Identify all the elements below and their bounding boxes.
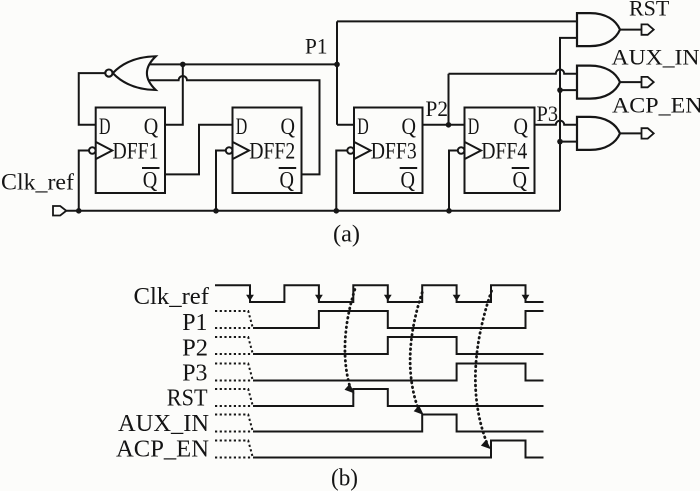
D flip-flop DFF4 bbox=[458, 108, 535, 194]
arrowhead of arc Clk to AUX_IN bbox=[414, 405, 424, 415]
node clock rail DFF4 bbox=[446, 208, 452, 214]
falling-edge arrow 5 on Clk_ref bbox=[522, 295, 530, 301]
svg-text:P1: P1 bbox=[182, 310, 207, 336]
falling-edge arrow 2 on Clk_ref bbox=[315, 295, 323, 301]
wire NOR input 2 from DFF2 Qbar (hop over vertical at x=182.8) bbox=[149, 76, 320, 174]
falling-edge arrow 3 on Clk_ref bbox=[384, 295, 392, 301]
wire DFF1 Qbar to DFF2 D bbox=[165, 125, 233, 175]
wire clock riser DFF1 bbox=[79, 151, 89, 211]
waveform RST dotted leader bbox=[215, 389, 253, 406]
output port arrow AUX_IN bbox=[642, 77, 654, 87]
AND gate U2 (RST) bbox=[577, 13, 620, 46]
dotted causality arc Clk to ACP_EN bbox=[475, 291, 491, 442]
AND gate U3 (AUX_IN) bbox=[577, 66, 620, 99]
waveform ACP_EN dotted low leader bbox=[215, 457, 252, 459]
svg-text:D: D bbox=[357, 114, 369, 140]
svg-text:Q: Q bbox=[281, 114, 296, 140]
wire NOR output to DFF1 D input bbox=[79, 73, 106, 125]
svg-text:Q: Q bbox=[513, 167, 528, 193]
wire clock riser DFF3 bbox=[336, 151, 347, 211]
node junction dots bbox=[76, 62, 563, 214]
svg-text:DFF2: DFF2 bbox=[249, 138, 295, 164]
D flip-flop DFF2 bbox=[226, 108, 302, 194]
svg-text:DFF3: DFF3 bbox=[371, 138, 417, 164]
waveform Clk_ref bbox=[215, 285, 544, 302]
node clock to AUX_IN gate bbox=[557, 87, 563, 93]
arrowhead of arc Clk to RST bbox=[345, 384, 355, 394]
AND gate U4 (ACP_EN) bbox=[577, 117, 620, 150]
waveform P3 dotted leader bbox=[215, 364, 253, 381]
wire P3 from DFF4 Q to ACP_EN gate top input (hop over clock vertical) bbox=[535, 121, 579, 125]
svg-text:P2: P2 bbox=[426, 96, 449, 121]
NOR gate U1 (mirrored, output on left) bbox=[105, 56, 156, 90]
svg-text:(b): (b) bbox=[331, 466, 358, 491]
wire clock stub to AUX_IN gate bottom input bbox=[560, 89, 578, 91]
svg-text:P3: P3 bbox=[537, 101, 559, 126]
node Clk_ref at input bbox=[76, 208, 82, 214]
wire AUX_IN gate output bbox=[620, 81, 642, 83]
wire DFF3 Q to DFF4 D (node P2) bbox=[423, 124, 465, 126]
waveform P1 solid bbox=[253, 311, 544, 328]
svg-text:ACP_EN: ACP_EN bbox=[612, 93, 700, 118]
wire clock stub to ACP_EN gate bottom input bbox=[560, 141, 578, 143]
waveform P2 dotted leader bbox=[215, 337, 253, 354]
output port arrow RST bbox=[642, 24, 654, 34]
waveform P3 dotted low leader bbox=[215, 380, 252, 382]
waveform AUX_IN dotted low leader bbox=[215, 431, 252, 433]
waveform P2 dotted low leader bbox=[215, 353, 252, 355]
waveform ACP_EN solid bbox=[253, 441, 544, 458]
svg-text:Clk_ref: Clk_ref bbox=[1, 170, 74, 195]
wire P1 vertical node P1 to DFF3 D bbox=[337, 21, 354, 124]
svg-text:D: D bbox=[236, 114, 248, 140]
wire DFF1 Q output up to P1 line bbox=[165, 64, 183, 124]
svg-text:Q: Q bbox=[144, 114, 159, 140]
D flip-flop DFF1 bbox=[89, 108, 165, 194]
wire clock riser DFF4 bbox=[449, 151, 458, 211]
svg-text:P3: P3 bbox=[182, 361, 207, 387]
wire P1 net horizontal (NOR input 1 to node P1) bbox=[149, 63, 337, 65]
falling-edge arrow 4 on Clk_ref bbox=[453, 295, 461, 301]
wire clock vertical riser to RST gate bottom input bbox=[560, 38, 578, 211]
svg-text:D: D bbox=[99, 114, 111, 140]
D flip-flop DFF3 bbox=[347, 108, 422, 194]
node DFF1 Q on P1 line bbox=[180, 62, 186, 68]
waveform AUX_IN solid bbox=[253, 415, 544, 432]
svg-text:P2: P2 bbox=[182, 336, 208, 362]
node P2 bbox=[446, 122, 452, 128]
svg-text:Q: Q bbox=[143, 167, 158, 193]
waveform ACP_EN dotted leader bbox=[215, 441, 253, 458]
waveform RST solid bbox=[253, 389, 544, 406]
node clock rail DFF2 bbox=[213, 208, 219, 214]
schematic net labels bbox=[1, 0, 700, 195]
wire P1 to RST gate top input bbox=[337, 20, 578, 22]
wire ACP_EN gate output bbox=[620, 132, 642, 134]
timing diagram waveforms bbox=[215, 285, 544, 457]
svg-text:AUX_IN: AUX_IN bbox=[118, 411, 209, 437]
svg-text:RST: RST bbox=[167, 386, 208, 412]
node clock rail DFF3 bbox=[334, 208, 340, 214]
svg-text:Q: Q bbox=[280, 167, 295, 193]
wire Clk_ref rail bbox=[66, 210, 560, 212]
dotted causality arc Clk to RST bbox=[345, 290, 355, 389]
waveform AUX_IN dotted leader bbox=[215, 415, 253, 432]
svg-text:D: D bbox=[468, 114, 480, 140]
svg-text:RST: RST bbox=[629, 0, 670, 21]
svg-text:DFF1: DFF1 bbox=[113, 138, 159, 164]
svg-text:AUX_IN: AUX_IN bbox=[612, 45, 700, 70]
svg-text:Q: Q bbox=[514, 114, 529, 140]
waveform P2 solid bbox=[253, 337, 544, 354]
wire clock riser DFF2 bbox=[216, 151, 226, 211]
svg-text:Clk_ref: Clk_ref bbox=[134, 284, 210, 310]
svg-text:Q: Q bbox=[401, 167, 416, 193]
svg-text:(a): (a) bbox=[333, 222, 360, 248]
svg-text:Q: Q bbox=[402, 114, 417, 140]
waveform P3 solid bbox=[253, 364, 544, 381]
timing diagram row labels bbox=[116, 284, 209, 462]
input port symbol Clk_ref bbox=[53, 206, 66, 216]
svg-text:ACP_EN: ACP_EN bbox=[116, 436, 209, 462]
waveform RST dotted low leader bbox=[215, 405, 252, 407]
dotted causality arc Clk to AUX_IN bbox=[410, 293, 422, 412]
arrowhead of arc Clk to ACP_EN bbox=[481, 440, 491, 450]
svg-text:DFF4: DFF4 bbox=[481, 138, 527, 164]
wire P2 vertical and horizontal to AUX_IN gate top input (hop over clock vertical) bbox=[449, 69, 579, 124]
node clock to ACP_EN gate bbox=[557, 139, 563, 145]
falling-edge arrow 1 on Clk_ref bbox=[246, 295, 254, 301]
wire RST gate output bbox=[620, 29, 642, 31]
svg-text:P1: P1 bbox=[305, 34, 328, 59]
node P1 bbox=[334, 62, 340, 68]
waveform P1 dotted low leader bbox=[215, 327, 252, 329]
output port arrow ACP_EN bbox=[642, 128, 654, 138]
waveform P1 dotted leader bbox=[215, 311, 253, 328]
